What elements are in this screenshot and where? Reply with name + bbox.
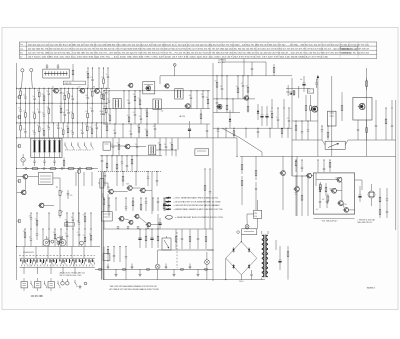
transistor T14 [139,188,145,193]
svg-text:AFC 10.7: AFC 10.7 [218,61,225,64]
svg-text:= GELIJKSTROOM INSTELLING VAN: = GELIJKSTROOM INSTELLING VAN DE BALANS [174,204,221,207]
ladder MR2 [241,156,243,205]
antenna A2 [30,69,33,89]
ladder TR1 [215,75,249,99]
cap C31 [67,190,73,199]
res R50 on rail [366,78,368,90]
ladder mid2 [102,108,202,124]
ladder driver3 [117,226,149,229]
ladder RF row1 [18,88,107,103]
wire bus H y246.5 left [17,246,100,248]
bank label text [60,271,85,277]
transistor T25 output [311,106,318,112]
aux switch groups S4 [21,278,60,291]
output stage box [313,173,354,214]
det cluster box [161,111,209,156]
svg-text:470: 470 [287,118,290,120]
ladder left audio1 [29,213,92,230]
svg-text:4n7: 4n7 [127,115,130,117]
cap C51 [273,64,275,76]
svg-text:82k: 82k [153,126,156,128]
svg-text:100n: 100n [59,236,62,238]
svg-text:560: 560 [170,143,173,145]
svg-text:560 452 5p6 217 417 1k2 47k 41: 560 452 5p6 217 417 1k2 47k 417 8n2 T.M … [28,44,369,46]
ladder out2 [295,176,309,217]
svg-text:Cap: Cap [20,48,23,50]
trimmer caps CT row [33,157,65,168]
jack J1 [43,236,50,246]
wire bus P y121 right [292,120,318,122]
transistor T2 AF116 [78,86,84,93]
bridge rectifier D3-D6 [225,235,256,281]
svg-text:Pos: Pos [20,44,23,46]
transistor T9 [164,84,169,88]
svg-text:470: 470 [18,89,21,91]
svg-text:82k: 82k [107,99,110,101]
svg-text:82k: 82k [66,110,69,112]
parts table frame [19,42,377,59]
wires TR detail [237,138,263,157]
svg-text:3n9: 3n9 [59,90,62,92]
svg-text:9482 7417: 9482 7417 [342,48,351,50]
wire x78.5 [77,169,81,223]
wires above bus N [222,59,266,76]
svg-text:100n: 100n [270,111,273,113]
output box B1 [353,97,372,120]
svg-text:470: 470 [42,113,45,115]
trimmer CT1 [173,64,176,76]
cap C30 [36,229,38,240]
out wires [292,156,362,210]
driver wires [98,172,152,215]
cap C52 [315,79,318,88]
transistor T28 [336,177,342,182]
svg-text:47k: 47k [42,129,45,131]
svg-text:15k: 15k [35,219,38,221]
wire bus F2 y168 left [17,168,98,170]
wire bus D y138 [17,137,237,139]
supply rail x318 [317,75,319,156]
svg-text:47k: 47k [133,112,136,114]
res R1 [72,64,74,81]
svg-text:5p6: 5p6 [85,124,88,126]
svg-text:10u: 10u [137,126,140,128]
label 1e FM text [218,60,226,64]
svg-text:AM 452 GOLF OM U4 LANG 214: AM 452 GOLF OM U4 LANG 214 [60,271,85,274]
ladder midlow [111,138,173,156]
svg-text:100n: 100n [56,125,59,127]
wire right rail [395,100,397,230]
transistor T31 [343,208,349,213]
svg-text:GEL 42B OPG 12: GEL 42B OPG 12 [357,222,372,224]
svg-text:2k2: 2k2 [23,111,25,113]
svg-text:22n: 22n [129,131,132,133]
ladder out3 [319,183,328,208]
svg-text:4n7: 4n7 [236,86,239,88]
transistor T6 [38,203,44,208]
aux small sym [75,280,87,288]
FM tuner box [143,82,155,94]
label box volume [65,223,75,227]
svg-text:5p6: 5p6 [145,129,148,131]
LDR R2 [21,154,25,166]
svg-text:47k: 47k [86,71,89,73]
svg-text:68p: 68p [66,92,69,94]
input box [100,179,104,188]
tone network box [38,173,53,185]
transistor T10 [124,144,130,149]
svg-text:110: 110 [254,216,257,218]
svg-text:22n: 22n [23,95,26,97]
IFT box IF3 [113,98,121,108]
transistor T30 [337,201,343,206]
note text [110,285,160,291]
svg-text:33k: 33k [108,114,111,116]
svg-text:AF 124: AF 124 [180,115,186,118]
svg-text:560: 560 [77,220,80,222]
out right comps [379,188,388,218]
pcb edge double line [102,172,104,280]
elco E2 [159,218,162,229]
cluster under T26 [357,100,377,140]
svg-text:4u7: 4u7 [316,209,319,211]
res R54 [341,92,343,121]
ratio det row [101,155,138,171]
svg-text:8n2: 8n2 [102,111,105,113]
ladder left audio2 [23,229,92,247]
svg-text:220: 220 [95,125,98,127]
svg-text:15k: 15k [63,93,66,95]
svg-text:47k: 47k [18,108,21,110]
transistor T13 [126,183,132,190]
feeder cluster [286,85,299,98]
wire bus I y279.6 [103,279,265,281]
transistor T12 [107,187,113,194]
svg-text:T3: T3 [93,87,95,89]
wire bus M y124 mid [103,123,210,125]
svg-text:68p: 68p [65,220,68,222]
svg-text:AT ORALE VST INSTELLING AV PAA: AT ORALE VST INSTELLING AV PAA DE FUNCTI… [110,288,160,291]
pilot lamp LA1 [155,256,160,280]
svg-text:3n9: 3n9 [85,111,88,113]
svg-text:82k: 82k [42,94,45,96]
svg-text:5p6: 5p6 [102,93,105,95]
svg-text:T12: T12 [107,187,110,189]
demod box [103,142,110,150]
wire bus C y123 [17,122,108,124]
svg-text:220: 220 [111,144,114,146]
legend notes [165,196,224,219]
svg-text:82k: 82k [90,127,93,129]
main bandswitch bank S3 [20,251,95,267]
svg-text:8n2: 8n2 [23,129,26,131]
svg-text:CD RV 29B: CD RV 29B [31,296,43,298]
out text [313,218,375,224]
svg-text:33k: 33k [220,86,223,88]
elco E1 [164,198,167,211]
svg-text:560: 560 [18,124,21,126]
wire bus E y156 right [240,155,396,157]
variable cap C40 [162,236,171,250]
res R53 [310,95,312,121]
svg-text:22n: 22n [71,130,74,132]
diode D1 [229,110,231,128]
svg-text:= WEERSTAND GEMETEN MET OHM PE: = WEERSTAND GEMETEN MET OHM PER VOLT 20K [174,208,224,211]
label box oscillator [63,81,85,85]
wire bus D2 y156 mid [100,155,162,157]
svg-text:8n2: 8n2 [90,90,93,92]
tuning coil pack L3-L8 [31,138,62,158]
svg-text:8n2: 8n2 [83,215,86,217]
transistor T1 AF115 [52,86,58,93]
svg-text:15k: 15k [90,108,93,110]
svg-text:560: 560 [206,97,209,99]
ladder RF row0 [86,68,109,89]
label CD RV 29B [31,296,43,298]
transistor T3 AF117 [93,87,99,94]
svg-text:47k: 47k [241,83,244,85]
elco E3 [359,186,362,202]
supply rail x332 [331,76,333,156]
svg-text:33k: 33k [32,130,35,132]
ladder TR2 [216,98,269,126]
connector circle CN1 [57,238,61,247]
wire bus TR y98.9 [213,98,255,100]
svg-text:22n: 22n [47,107,50,109]
mid ladder y229-248 [175,229,207,249]
mid lower wires [110,138,178,157]
svg-text:Div: Div [20,57,23,59]
ladder driver2 [103,198,165,212]
svg-text:5p6: 5p6 [37,90,40,92]
svg-text:3n9: 3n9 [133,94,136,96]
svg-text:2k2: 2k2 [47,125,49,127]
transistor T5 [20,190,26,195]
row on bus F2 [23,167,94,170]
ladder MRL [204,169,211,230]
svg-text:9488/13: 9488/13 [367,288,376,290]
svg-text:68p: 68p [189,95,192,97]
svg-text:4n7: 4n7 [29,237,32,239]
cap C50 [251,62,253,76]
svg-text:220: 220 [254,213,257,215]
transistor T17 [134,214,139,218]
IFT box IF4 [149,145,156,155]
ladder mid3 [105,124,208,138]
wire bus F y171.5 dotted [98,171,162,173]
wire mid tall rail [212,63,214,281]
elco E10 [300,76,305,92]
wire left rail [16,63,18,280]
psu left ladder [107,229,127,262]
svg-text:T13: T13 [126,183,129,185]
wire bus Q2 y112.6 topmid [213,112,240,114]
svg-text:10u: 10u [89,233,92,235]
mains transformer TR40 [262,231,268,280]
IFT box IF1 [153,99,161,109]
ladder driver1 [104,171,158,186]
svg-text:100n: 100n [101,77,104,79]
svg-text:VOL: VOL [65,224,68,226]
svg-text:220: 220 [127,100,130,102]
res R52 [305,95,307,121]
svg-text:22n 22n 747 94c 1M0 512 220 47: 22n 22n 747 94c 1M0 512 220 470 94c 68p … [28,53,370,55]
wire bus Q y128 topright [213,127,292,129]
bandswitch contacts S2 [65,142,93,150]
wire right block rail [291,78,293,176]
svg-text:+ GROTE 4 200 V/A: + GROTE 4 200 V/A [357,218,375,221]
transistor T19 [216,104,222,109]
pot P2 tone [59,208,63,218]
svg-text:= VOLT GEMETEN RADIO FM IN STA: = VOLT GEMETEN RADIO FM IN STAND 452 KG [174,197,219,200]
phono box PU [322,140,348,149]
svg-text:3n9: 3n9 [117,143,120,145]
connector circle CN2 [80,241,84,246]
speaker LS1 [368,184,375,206]
svg-text:= IN ULTRA KORT GOLF GEMETEN M: = IN ULTRA KORT GOLF GEMETEN MET 10.7 MH… [174,200,222,203]
transistor T26 output [358,103,365,109]
svg-text:T30: T30 [344,204,347,206]
wire bus B y103 [17,102,108,104]
svg-text:22n: 22n [83,235,86,237]
cap C1 [46,64,48,69]
svg-text:2k2 2k2 5646 94c T.M 33k 914 5: 2k2 2k2 5646 94c T.M 33k 914 560 2k2 4u7… [28,48,370,50]
svg-text:47n: 47n [70,195,73,197]
svg-text:33k: 33k [23,231,26,233]
supply rail x367 [366,68,368,156]
label 220V bridge [237,231,244,283]
mains switch box [254,210,262,218]
driver wires2 [103,193,158,229]
in-box comps [316,178,347,212]
wire FR y140 [292,139,396,141]
svg-text:5p6: 5p6 [63,112,66,114]
output box B2 [328,111,337,126]
svg-text:470: 470 [66,126,69,128]
elco E6 [188,121,191,138]
wire bus L y108.7 mid [103,108,210,110]
transistor T22 [294,156,300,216]
svg-text:417 100n 12k 1M0 15k 10u 452 1: 417 100n 12k 1M0 15k 10u 452 10u 220 560… [28,57,328,59]
ladder TR3 [270,99,290,128]
svg-text:P1: P1 [56,187,58,189]
svg-text:VOL 708 4u2/9u17: VOL 708 4u2/9u17 [322,221,338,223]
diode D2 [257,104,259,120]
label box R51 [307,89,313,93]
transistor T21 [280,156,286,210]
svg-text:2k2: 2k2 [246,86,248,88]
wire bus N y75.8 topright [160,76,292,84]
box psu small [103,254,110,261]
svg-text:470: 470 [113,130,116,132]
bank risers [24,247,84,275]
svg-text:OSC 452: OSC 452 [65,83,72,85]
svg-text:4: 4 [165,217,166,219]
svg-text:THE CIRCUIT HAS BEEN DRAWN IN: THE CIRCUIT HAS BEEN DRAWN IN POSITION O… [110,285,158,288]
component row y269 [95,264,213,277]
svg-text:2k2: 2k2 [90,77,92,79]
wire bus A2 y90.8 mid [103,90,210,92]
svg-text:912: 912 [322,199,325,201]
wire bus G y229 mid [103,228,213,230]
pot P1 volume [56,187,63,198]
transistor T20 [243,96,249,101]
wire TR diag [222,128,262,152]
ferrite rod antenna L1 [43,69,69,78]
svg-text:8n2: 8n2 [215,81,218,83]
svg-text:T28: T28 [335,178,338,180]
aux circles pair [61,279,69,285]
svg-text:Res: Res [20,52,23,54]
svg-text:2k2: 2k2 [53,232,55,234]
transistor T8 [128,83,133,87]
psu wires2 [158,250,214,257]
svg-text:= GEMETEN MET BUIS VOLTMETER B: = GEMETEN MET BUIS VOLTMETER BIJ 20°C 22… [175,217,224,219]
cap C2 [57,64,59,69]
svg-text:220: 220 [47,91,50,93]
wire psu left vert [104,247,126,280]
IFT box IF2 [175,89,183,99]
wires left audio [17,172,92,208]
svg-text:100n: 100n [32,112,35,114]
svg-text:10u: 10u [80,130,83,132]
ladder mid1 [102,90,209,108]
gang dashed line [19,255,95,257]
transistor T18 [146,223,151,227]
res chain MR3 [255,156,257,210]
psu fuse box [242,229,257,235]
svg-text:560: 560 [85,95,88,97]
ladder FR3 [295,100,393,140]
svg-text:40u: 40u [300,79,303,81]
ladder RF row3 [18,122,102,137]
svg-text:68p: 68p [158,143,161,145]
svg-text:4217 9412: 4217 9412 [342,53,351,55]
svg-text:T2: T2 [78,86,80,88]
transistor T27 [306,173,312,178]
transistor T7 in tuner [145,86,151,91]
svg-text:100n: 100n [145,110,148,112]
jack small comps [51,240,60,244]
label sheet number [367,288,376,290]
transistor T15 [118,216,124,221]
left rail comps [16,88,20,247]
jack J2 [59,236,66,246]
psu right comps [250,240,289,280]
transistor T29 [330,188,336,193]
driver boxes [102,212,113,221]
antenna A1 [21,69,24,89]
parts table text [20,44,370,58]
svg-text:3n9: 3n9 [29,215,32,217]
svg-text:15k: 15k [138,98,141,100]
svg-text:512: 512 [308,91,311,93]
wire bus A y88 left [17,87,110,89]
svg-text:452: 452 [161,111,164,113]
svg-text:470: 470 [77,232,80,234]
svg-text:4n7: 4n7 [37,125,40,127]
transistor T16 [128,220,133,224]
ladder TR4 [217,128,289,138]
transistor T9b [180,104,191,118]
pilot lamp LA2 [205,252,210,280]
mains wires [247,200,258,229]
scale lamp LA3 [245,221,249,230]
ladder RF row2 [18,103,107,123]
svg-text:220: 220 [71,112,74,114]
tuning gang dashed [176,232,178,268]
svg-text:2k2: 2k2 [139,116,141,118]
